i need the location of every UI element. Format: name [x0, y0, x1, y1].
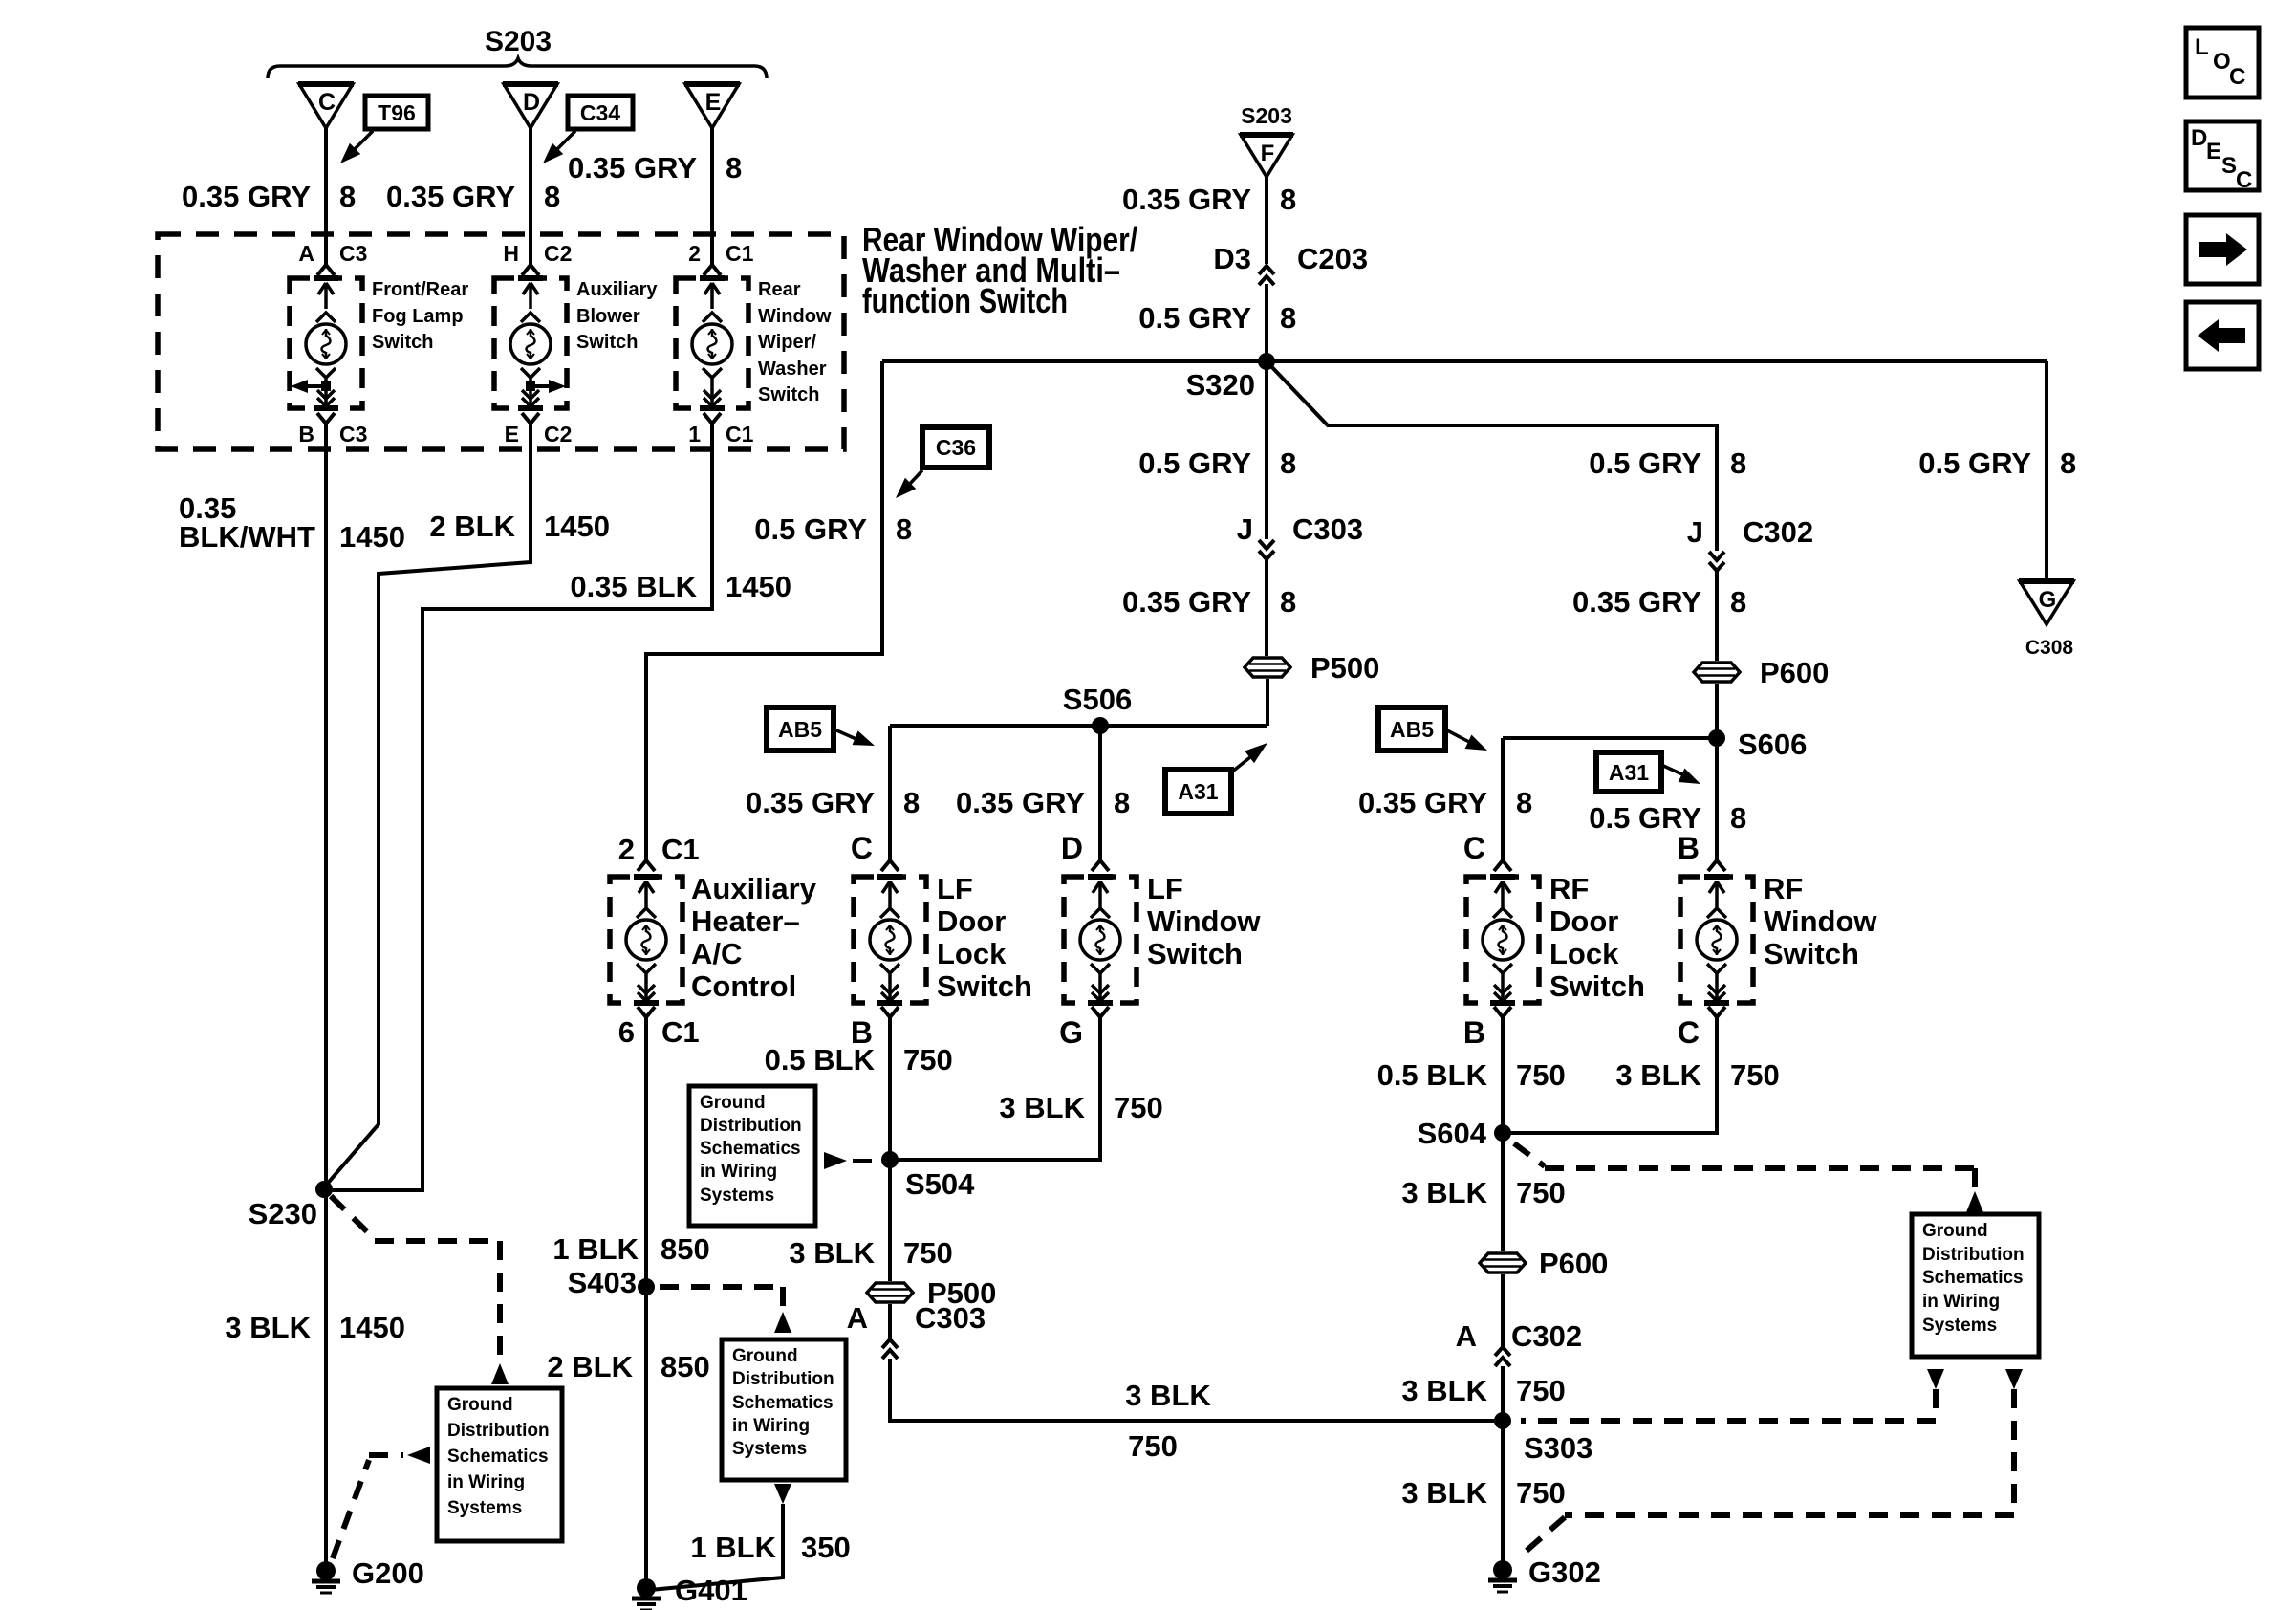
- svg-text:C302: C302: [1511, 1319, 1582, 1353]
- svg-text:Systems: Systems: [700, 1186, 774, 1206]
- connector C303: [1259, 540, 1274, 549]
- wire S504 to P500: [888, 1160, 892, 1281]
- arrow from A31 to wire (RF): [1661, 765, 1682, 774]
- Front/Rear Fog Lamp Switch: [290, 278, 362, 408]
- RF Door Lock Switch: [1466, 877, 1539, 1003]
- svg-text:G302: G302: [1528, 1556, 1601, 1589]
- svg-text:C1: C1: [661, 833, 700, 866]
- svg-text:Switch: Switch: [372, 332, 433, 353]
- wire S320 horizontal bus: [882, 359, 2047, 363]
- svg-text:750: 750: [1730, 1058, 1780, 1092]
- svg-text:8: 8: [1730, 585, 1746, 619]
- svg-text:RF: RF: [1549, 872, 1589, 905]
- svg-text:Schematics: Schematics: [732, 1393, 834, 1413]
- splice S606: [1708, 729, 1725, 747]
- connector C302: [1709, 552, 1724, 560]
- svg-text:B: B: [298, 422, 314, 446]
- svg-text:1450: 1450: [544, 510, 610, 543]
- connector C203: [1259, 266, 1274, 274]
- svg-text:Door: Door: [1549, 904, 1618, 938]
- arrow from reference box to S504: [824, 1152, 847, 1169]
- svg-text:Lock: Lock: [937, 937, 1007, 970]
- svg-text:B: B: [1463, 1015, 1485, 1050]
- svg-text:C: C: [2229, 64, 2245, 90]
- splice S604: [1494, 1124, 1511, 1142]
- wire LF door lock B to S504: [888, 1017, 892, 1160]
- svg-text:C302: C302: [1743, 515, 1813, 549]
- connector triangle G (C308): [2020, 581, 2073, 624]
- svg-text:2: 2: [688, 241, 701, 266]
- svg-text:Switch: Switch: [576, 332, 638, 353]
- arrow from AB5 to wire (RF): [1445, 729, 1469, 742]
- svg-text:A31: A31: [1178, 779, 1218, 804]
- svg-text:C203: C203: [1297, 242, 1368, 275]
- Auxiliary Heater-A/C Control switch: [610, 877, 682, 1003]
- svg-text:1450: 1450: [339, 520, 405, 554]
- svg-text:in Wiring: in Wiring: [1922, 1292, 2000, 1312]
- arrow head at reference box (left): [407, 1447, 430, 1464]
- arrow from box to G302 path: [2005, 1369, 2023, 1389]
- svg-text:3 BLK: 3 BLK: [1615, 1058, 1701, 1092]
- svg-text:3 BLK: 3 BLK: [1125, 1379, 1211, 1412]
- svg-text:750: 750: [1516, 1058, 1566, 1092]
- pass-through grommet P500 (lower): [865, 1281, 915, 1304]
- wire A/C302 to S303: [1501, 1366, 1505, 1421]
- wire RF door lock B to S604: [1501, 1017, 1505, 1133]
- svg-text:LF: LF: [1147, 872, 1183, 905]
- svg-text:E: E: [505, 422, 519, 446]
- svg-text:D: D: [1061, 831, 1083, 865]
- wire E/C2 down (2 BLK): [324, 424, 531, 1187]
- label AB5 (RF): [1378, 707, 1445, 751]
- wire S303 to G302: [1501, 1421, 1505, 1570]
- svg-text:8: 8: [1280, 301, 1296, 335]
- ground distribution schematics reference box (middle): [722, 1339, 846, 1480]
- svg-text:D3: D3: [1213, 242, 1251, 275]
- svg-text:6: 6: [618, 1015, 635, 1049]
- svg-text:C1: C1: [661, 1015, 700, 1049]
- wire aux heater to G401: [644, 1017, 648, 1588]
- svg-text:3 BLK: 3 BLK: [1401, 1476, 1487, 1510]
- svg-text:L: L: [2195, 34, 2209, 60]
- svg-text:function Switch: function Switch: [862, 281, 1068, 320]
- wire E triangle to 2/C1: [710, 128, 714, 265]
- svg-text:F: F: [1261, 141, 1275, 166]
- svg-text:0.35 GRY: 0.35 GRY: [956, 786, 1085, 819]
- wire S506 to LF window switch: [1098, 726, 1102, 860]
- svg-text:C3: C3: [339, 422, 367, 446]
- svg-text:0.5 GRY: 0.5 GRY: [1589, 801, 1701, 835]
- svg-text:in Wiring: in Wiring: [447, 1472, 525, 1492]
- connector C2 (bottom): [522, 413, 531, 424]
- svg-text:S303: S303: [1524, 1431, 1592, 1465]
- arrow from C36 to wire: [908, 470, 922, 486]
- svg-text:S403: S403: [568, 1266, 637, 1299]
- connector (top): [881, 860, 890, 871]
- wire F to C203: [1265, 176, 1268, 264]
- connector triangle D (to S203): [504, 84, 557, 128]
- LF Window Switch: [1064, 877, 1137, 1003]
- connector triangle E (to S203): [685, 84, 739, 128]
- svg-text:O: O: [2213, 49, 2231, 75]
- svg-text:Window: Window: [1764, 904, 1877, 938]
- Rear Window Wiper/Washer Switch: [676, 278, 748, 408]
- svg-text:G: G: [2039, 587, 2057, 613]
- wire S506 to LF door lock switch: [888, 726, 892, 860]
- splice S230: [315, 1181, 333, 1198]
- ground G401: [637, 1578, 656, 1598]
- svg-text:BLK/WHT: BLK/WHT: [179, 520, 315, 554]
- legend box LOC: [2186, 28, 2259, 98]
- svg-text:Wiper/: Wiper/: [758, 332, 816, 353]
- svg-text:C303: C303: [1292, 512, 1363, 546]
- svg-text:0.35 GRY: 0.35 GRY: [568, 151, 697, 185]
- svg-text:S606: S606: [1738, 728, 1807, 761]
- dashed reference G200 to box: [333, 1460, 369, 1558]
- svg-text:Window: Window: [758, 306, 832, 327]
- svg-text:2 BLK: 2 BLK: [429, 510, 515, 543]
- svg-text:750: 750: [1516, 1176, 1566, 1209]
- svg-text:3 BLK: 3 BLK: [1401, 1176, 1487, 1209]
- wire C303 to P500: [1265, 559, 1268, 656]
- svg-text:0.35 GRY: 0.35 GRY: [1572, 585, 1701, 619]
- wire C203 to S320: [1265, 284, 1268, 361]
- svg-text:A31: A31: [1609, 760, 1649, 785]
- svg-text:C2: C2: [544, 422, 572, 446]
- svg-text:350: 350: [801, 1531, 851, 1564]
- svg-text:Ground: Ground: [732, 1346, 798, 1366]
- svg-text:Rear: Rear: [758, 279, 801, 300]
- wire A/C303 to S303: [890, 1359, 1503, 1421]
- svg-text:C1: C1: [726, 241, 754, 266]
- wire S604 to P600: [1501, 1133, 1505, 1251]
- svg-text:3 BLK: 3 BLK: [999, 1091, 1085, 1124]
- connector (bottom): [1708, 1007, 1717, 1017]
- wire C302 to P600: [1715, 571, 1719, 661]
- svg-text:0.5 GRY: 0.5 GRY: [754, 512, 867, 546]
- svg-text:C: C: [1463, 831, 1485, 865]
- svg-text:0.35 GRY: 0.35 GRY: [386, 180, 515, 213]
- svg-text:C: C: [1678, 1015, 1700, 1050]
- svg-text:Window: Window: [1147, 904, 1261, 938]
- svg-text:D: D: [2191, 125, 2207, 151]
- svg-text:J: J: [1237, 512, 1253, 546]
- dashed reference S604 to box (right): [1514, 1143, 1545, 1166]
- label AB5 (LF): [767, 707, 834, 751]
- svg-text:Washer: Washer: [758, 359, 827, 380]
- svg-text:8: 8: [1730, 446, 1746, 480]
- arrow from reference box down: [774, 1484, 791, 1504]
- svg-text:P500: P500: [1310, 651, 1379, 685]
- svg-text:Systems: Systems: [1922, 1316, 1997, 1336]
- pass-through grommet P600: [1692, 661, 1742, 684]
- svg-text:0.5 BLK: 0.5 BLK: [1377, 1058, 1488, 1092]
- svg-text:LF: LF: [937, 872, 973, 905]
- svg-text:8: 8: [896, 512, 912, 546]
- svg-text:0.35 GRY: 0.35 GRY: [1122, 585, 1251, 619]
- svg-text:C3: C3: [339, 241, 367, 266]
- svg-text:Switch: Switch: [1764, 937, 1859, 970]
- svg-text:Distribution: Distribution: [1922, 1245, 2025, 1265]
- connector C303 A: [882, 1339, 898, 1348]
- svg-text:E: E: [705, 89, 722, 116]
- svg-text:0.5 BLK: 0.5 BLK: [765, 1043, 876, 1077]
- blower switch wiper arrow (right): [526, 381, 535, 391]
- arrow from AB5 to wire (LF): [834, 729, 858, 740]
- svg-text:C34: C34: [580, 100, 620, 125]
- svg-text:1450: 1450: [339, 1311, 405, 1344]
- label C36: [922, 427, 989, 468]
- svg-text:0.35 GRY: 0.35 GRY: [746, 786, 875, 819]
- svg-text:C2: C2: [544, 241, 572, 266]
- label A31 (RF): [1596, 752, 1661, 792]
- svg-text:Auxiliary: Auxiliary: [576, 279, 658, 300]
- legend box back arrow: [2186, 302, 2259, 369]
- svg-text:8: 8: [1280, 585, 1296, 619]
- svg-text:8: 8: [903, 786, 920, 819]
- svg-text:850: 850: [661, 1232, 710, 1266]
- connector (bottom): [1494, 1007, 1503, 1017]
- svg-text:Lock: Lock: [1549, 937, 1619, 970]
- connector C1 bottom (aux heater): [638, 1007, 646, 1017]
- svg-text:RF: RF: [1764, 872, 1803, 905]
- RF Window Switch: [1680, 877, 1753, 1003]
- dashed reference box to S303: [1933, 1389, 1939, 1421]
- svg-text:1: 1: [688, 422, 701, 446]
- svg-text:A: A: [1456, 1319, 1477, 1353]
- svg-text:S203: S203: [485, 26, 552, 57]
- svg-text:750: 750: [1128, 1429, 1178, 1463]
- LF Door Lock Switch: [854, 877, 926, 1003]
- svg-text:S320: S320: [1186, 368, 1255, 402]
- svg-text:Schematics: Schematics: [1922, 1268, 2024, 1288]
- svg-text:1 BLK: 1 BLK: [690, 1531, 776, 1564]
- label T96: [365, 96, 428, 129]
- svg-text:H: H: [503, 241, 519, 266]
- svg-text:Ground: Ground: [1922, 1221, 1988, 1241]
- svg-text:in Wiring: in Wiring: [700, 1162, 777, 1182]
- wire P500 to S506: [1266, 679, 1269, 726]
- splice S504: [881, 1151, 899, 1168]
- svg-text:Distribution: Distribution: [700, 1116, 802, 1136]
- connector C1 (bottom): [704, 413, 712, 424]
- Rear Window Wiper/Washer and Multi-function Switch enclosure: [158, 234, 844, 449]
- svg-text:Auxiliary: Auxiliary: [691, 872, 817, 905]
- arrow from T96 to wire C: [354, 131, 373, 150]
- svg-text:C308: C308: [2025, 637, 2074, 659]
- splice S506: [1092, 717, 1109, 734]
- arrow to ground distribution reference: [491, 1363, 509, 1384]
- svg-text:A: A: [847, 1301, 868, 1335]
- label A31 (LF): [1165, 770, 1231, 814]
- svg-text:8: 8: [544, 180, 560, 213]
- fog lamp switch wiper arrow (left): [321, 381, 331, 391]
- svg-text:C: C: [2236, 167, 2252, 193]
- connector C1 (top): [704, 265, 712, 275]
- svg-text:Switch: Switch: [937, 969, 1032, 1003]
- wire S606 to RF window: [1715, 738, 1719, 860]
- svg-text:B: B: [1678, 831, 1700, 865]
- svg-text:1450: 1450: [726, 570, 791, 603]
- svg-text:C303: C303: [915, 1301, 986, 1335]
- svg-text:G: G: [1059, 1015, 1083, 1050]
- svg-text:C1: C1: [726, 422, 754, 446]
- svg-text:Switch: Switch: [1549, 969, 1645, 1003]
- svg-text:Systems: Systems: [732, 1439, 807, 1459]
- arrow from box to S303 path: [1927, 1369, 1944, 1389]
- connector (bottom): [1092, 1007, 1100, 1017]
- svg-text:750: 750: [1516, 1374, 1566, 1407]
- arrow from C34 to wire D: [556, 131, 575, 150]
- ground distribution schematics reference box (right): [1912, 1214, 2039, 1357]
- svg-text:A/C: A/C: [691, 937, 742, 970]
- connector C3 (top): [317, 265, 326, 275]
- svg-text:S203: S203: [1241, 103, 1292, 128]
- connector triangle F (to S203): [1241, 135, 1292, 177]
- svg-text:E: E: [2206, 139, 2221, 164]
- svg-text:850: 850: [661, 1350, 710, 1383]
- svg-text:S230: S230: [249, 1197, 317, 1230]
- svg-text:Front/Rear: Front/Rear: [372, 279, 468, 300]
- svg-text:T96: T96: [378, 100, 416, 125]
- svg-text:Fog Lamp: Fog Lamp: [372, 306, 464, 327]
- svg-text:Blower: Blower: [576, 306, 640, 327]
- wire C triangle to A/C3: [324, 128, 328, 265]
- svg-text:8: 8: [1730, 801, 1746, 835]
- svg-text:8: 8: [726, 151, 742, 185]
- svg-text:Schematics: Schematics: [700, 1139, 801, 1159]
- svg-text:8: 8: [339, 180, 356, 213]
- svg-text:P600: P600: [1539, 1247, 1608, 1280]
- wire 1/C1 down (0.35 BLK): [328, 424, 712, 1190]
- svg-text:0.5 GRY: 0.5 GRY: [1918, 446, 2031, 480]
- svg-text:8: 8: [1280, 446, 1296, 480]
- connector C302 A: [1495, 1347, 1510, 1356]
- svg-text:0.35 BLK: 0.35 BLK: [570, 570, 697, 603]
- svg-text:750: 750: [1114, 1091, 1163, 1124]
- svg-text:Distribution: Distribution: [447, 1421, 550, 1441]
- svg-text:C: C: [318, 89, 336, 116]
- wire S606 to RF door lock: [1501, 738, 1505, 860]
- wire S606 horizontal: [1503, 736, 1717, 740]
- ground G302: [1493, 1560, 1512, 1579]
- splice S403: [638, 1278, 655, 1295]
- svg-text:8: 8: [2060, 446, 2076, 480]
- wire S320 down to C303: [1265, 361, 1268, 539]
- splice S320: [1258, 353, 1275, 370]
- connector (top): [1494, 860, 1503, 871]
- wire 1 BLK 350 to G401: [650, 1504, 783, 1590]
- connector C2 (top): [522, 265, 531, 275]
- wire P600 to connector A: [1501, 1274, 1505, 1346]
- svg-text:8: 8: [1114, 786, 1130, 819]
- svg-text:Ground: Ground: [700, 1093, 766, 1113]
- label C34: [568, 96, 633, 129]
- svg-text:750: 750: [1516, 1476, 1566, 1510]
- svg-text:C: C: [851, 831, 873, 865]
- svg-text:0.35 GRY: 0.35 GRY: [182, 180, 311, 213]
- connector (bottom): [881, 1007, 890, 1017]
- connector C3 (bottom): [317, 413, 326, 424]
- dashed reference S230 to ground distribution box: [331, 1196, 375, 1239]
- wire RF window C to S604: [1503, 1017, 1717, 1133]
- svg-text:Switch: Switch: [1147, 937, 1243, 970]
- splice S303: [1494, 1412, 1511, 1429]
- ground distribution schematics reference box (LF): [689, 1086, 815, 1226]
- svg-text:Control: Control: [691, 969, 796, 1003]
- svg-text:S504: S504: [905, 1167, 975, 1201]
- arrow to reference box (right): [1966, 1191, 1983, 1212]
- svg-text:3 BLK: 3 BLK: [1401, 1374, 1487, 1407]
- svg-text:3 BLK: 3 BLK: [225, 1311, 311, 1344]
- svg-text:A: A: [298, 241, 314, 266]
- svg-text:Door: Door: [937, 904, 1006, 938]
- svg-text:in Wiring: in Wiring: [732, 1416, 810, 1436]
- wire LF window G to S504: [890, 1017, 1100, 1160]
- svg-text:S: S: [2221, 153, 2237, 179]
- connector C1 top (aux heater): [638, 860, 646, 871]
- wire S320 to RF (diagonal): [1267, 361, 1717, 551]
- dashed reference S403 to box: [660, 1284, 783, 1290]
- svg-text:Schematics: Schematics: [447, 1447, 549, 1467]
- svg-text:P600: P600: [1760, 656, 1829, 689]
- ground G200: [316, 1561, 336, 1580]
- dashed reference box to G302: [2011, 1389, 2017, 1515]
- legend box DESC: [2186, 121, 2259, 190]
- pass-through grommet P600 (lower): [1478, 1251, 1527, 1274]
- svg-text:D: D: [523, 89, 540, 116]
- svg-text:Heater–: Heater–: [691, 904, 800, 938]
- connector (top): [1708, 860, 1717, 871]
- svg-text:750: 750: [903, 1236, 953, 1270]
- svg-text:Systems: Systems: [447, 1498, 522, 1518]
- svg-text:G200: G200: [352, 1556, 424, 1590]
- splice S506 horizontal: [890, 724, 1267, 728]
- wire S320 to G (C308): [2045, 361, 2048, 580]
- svg-text:0.35 GRY: 0.35 GRY: [1358, 786, 1487, 819]
- svg-text:G401: G401: [675, 1574, 747, 1607]
- svg-text:Ground: Ground: [447, 1395, 513, 1415]
- svg-text:J: J: [1687, 515, 1703, 549]
- svg-text:0.35 GRY: 0.35 GRY: [1122, 183, 1251, 216]
- arrow from A31 to S506 (LF): [1231, 757, 1250, 772]
- svg-text:2 BLK: 2 BLK: [547, 1350, 633, 1383]
- svg-text:AB5: AB5: [778, 717, 822, 742]
- svg-text:0.5 GRY: 0.5 GRY: [1138, 446, 1251, 480]
- svg-text:AB5: AB5: [1390, 717, 1434, 742]
- pass-through grommet P500: [1243, 656, 1292, 679]
- svg-text:2: 2: [618, 833, 635, 866]
- svg-text:1 BLK: 1 BLK: [552, 1232, 639, 1266]
- ground distribution schematics reference box (left): [437, 1388, 562, 1541]
- wire D triangle to H/C2: [529, 128, 532, 265]
- Auxiliary Blower Switch: [494, 278, 567, 408]
- svg-text:750: 750: [903, 1043, 953, 1077]
- connector (top): [1092, 860, 1100, 871]
- svg-text:Switch: Switch: [758, 384, 819, 405]
- svg-text:0.5 GRY: 0.5 GRY: [1589, 446, 1701, 480]
- legend box forward arrow: [2186, 215, 2259, 284]
- brace S203 splice group: [268, 58, 767, 78]
- svg-text:S506: S506: [1063, 683, 1132, 716]
- svg-text:8: 8: [1516, 786, 1532, 819]
- wire B/C3 down to G200: [324, 424, 328, 1571]
- wire from S320 to Auxiliary Heater-A/C Control: [646, 361, 882, 860]
- svg-text:8: 8: [1280, 183, 1296, 216]
- svg-text:C36: C36: [936, 435, 976, 460]
- wire P500 to connector: [888, 1304, 892, 1338]
- wire P600 to S606: [1715, 684, 1719, 738]
